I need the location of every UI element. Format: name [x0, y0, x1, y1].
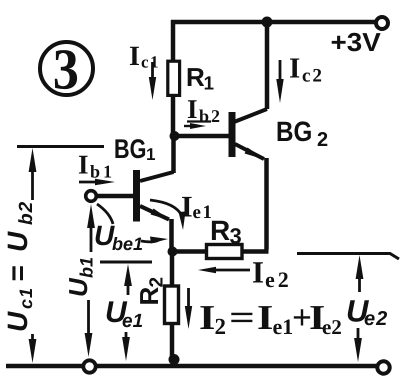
current arrow Ib1 [79, 179, 115, 186]
dimension Uc1=Ub2 lower line with down arrow [29, 334, 37, 363]
node A junction dot [170, 131, 180, 141]
label equation I2=Ie1+Ie2 [200, 306, 341, 334]
label Uc1=Ub2 rotated [8, 202, 33, 330]
label Ic1 [130, 47, 158, 68]
wire BG1 emitter vertical [169, 219, 174, 249]
dimension Ue1 top tick [100, 261, 152, 264]
input terminal [86, 191, 97, 202]
voltage arrow Ube1 curved [97, 204, 168, 244]
figure number circle 3 [40, 42, 93, 95]
wire BG2 collector vertical [265, 20, 270, 109]
label R1 [188, 68, 214, 89]
current arrow Ie1 curved [150, 200, 186, 230]
current arrow Ic2 [276, 60, 283, 103]
label BG2 [278, 121, 328, 146]
transistor BG2 [229, 109, 268, 160]
resistor R1 [168, 61, 180, 95]
junction dot top [262, 17, 273, 28]
label Ib2 [188, 100, 219, 122]
label Ube1 [96, 226, 142, 251]
wire base of BG2 [176, 134, 229, 139]
wire R1 top lead [171, 20, 176, 60]
dimension Ue1 upper line with up arrow [124, 264, 132, 295]
Ib2 underline [187, 120, 211, 122]
label Ie1 [182, 197, 211, 218]
dimension Ue2 top tick [297, 254, 399, 260]
dimension Ub1 lower line with down arrow [85, 300, 93, 357]
resistor R3 [207, 245, 243, 259]
dimension Ue2 upper line with up arrow [356, 255, 364, 292]
top supply wire [171, 20, 378, 25]
label Ue2 [348, 300, 387, 325]
current arrow Ic1 [149, 62, 156, 100]
current arrow Ib2 [184, 123, 206, 129]
bottom junction dot [169, 354, 180, 365]
label Ue1 [107, 301, 142, 327]
dimension Ue2 lower line with down arrow [354, 328, 362, 362]
wire node to R2 [170, 251, 175, 286]
label R3 [212, 221, 241, 244]
bottom left terminal [83, 360, 95, 372]
label Ie2 [253, 262, 288, 287]
wire BG2 emitter vertical [264, 158, 269, 250]
wire R3 to node [172, 249, 207, 254]
wire BG1 collector vertical [171, 136, 176, 173]
label R2 rotated [140, 278, 162, 304]
dimension Uc1=Ub2 top tick [17, 145, 104, 148]
bottom wire [6, 364, 377, 369]
wire BG1 base [98, 194, 134, 199]
wire R1 bottom lead [171, 97, 176, 134]
current arrow I2 [185, 288, 192, 329]
transistor BG1 [133, 170, 174, 222]
wire R2 bottom lead [170, 324, 175, 363]
label Ic2 [290, 59, 321, 82]
terminal +3V [376, 17, 388, 29]
node B junction dot [168, 247, 178, 257]
dimension Ue1 lower line with down arrow [122, 332, 130, 361]
dimension Ub1 upper line with up arrow [87, 204, 95, 252]
current arrow Ie2 [198, 267, 250, 274]
label BG1 [115, 139, 155, 160]
label Ib1 [79, 156, 111, 178]
dimension Uc1=Ub2 upper line with up arrow [29, 148, 37, 200]
bottom right terminal [377, 361, 389, 373]
resistor R2 [165, 286, 179, 324]
label +3V [332, 33, 381, 52]
label Ub1 rotated [69, 258, 93, 296]
wire to R3 [242, 249, 269, 254]
